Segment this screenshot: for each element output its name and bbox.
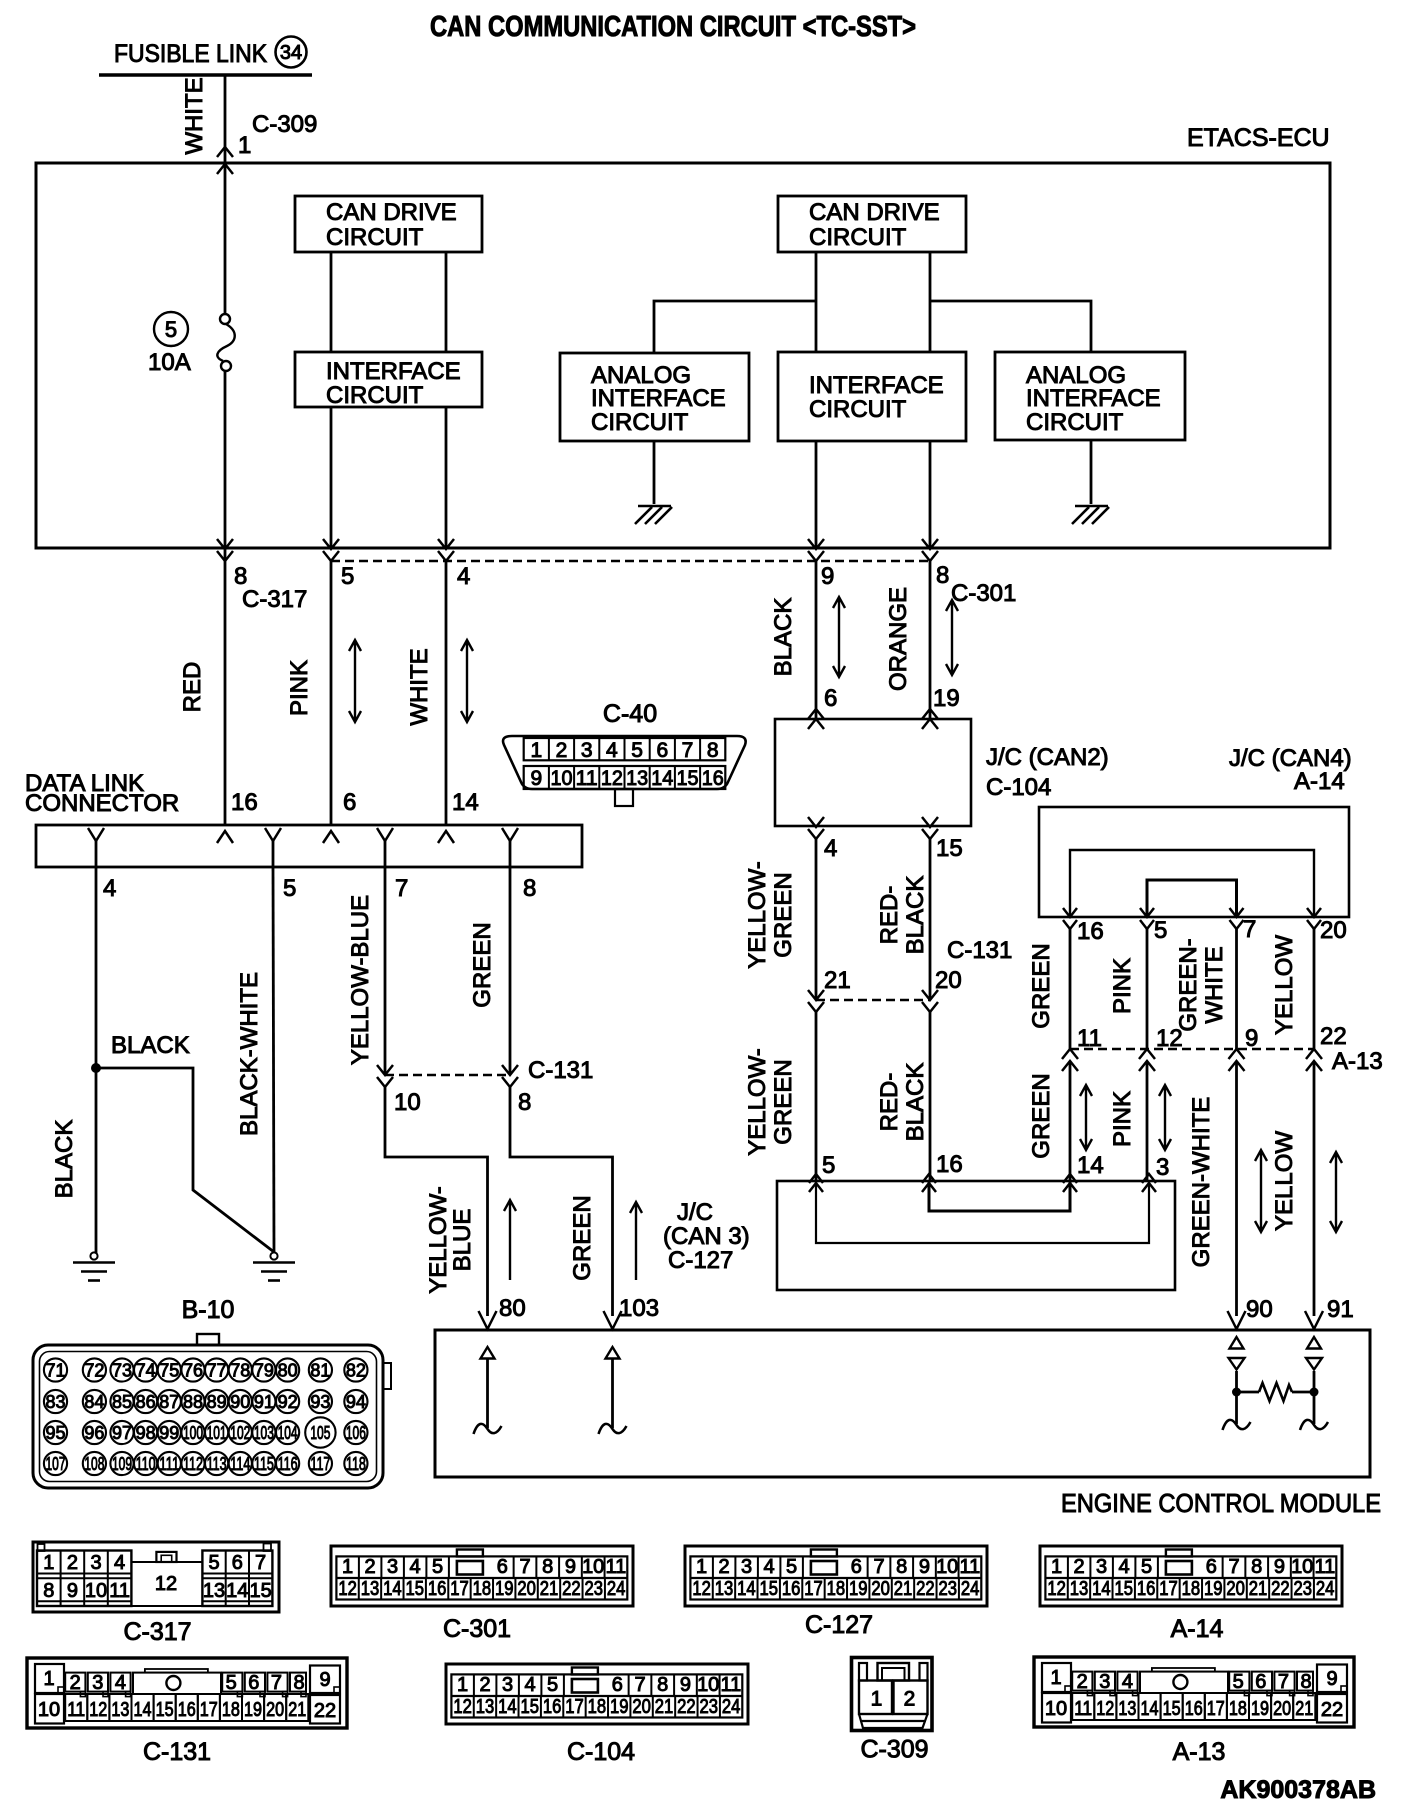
- wire PINK: [330, 561, 333, 825]
- svg-text:YELLOW-BLUE: YELLOW-BLUE: [347, 895, 374, 1065]
- svg-text:6: 6: [1255, 1671, 1266, 1693]
- svg-text:10: 10: [582, 1556, 604, 1578]
- svg-text:PINK: PINK: [1109, 1091, 1136, 1147]
- svg-text:20: 20: [935, 967, 962, 994]
- svg-text:GREEN: GREEN: [770, 872, 797, 957]
- wires CAN drive to interface (right): [815, 252, 818, 352]
- svg-text:97: 97: [112, 1423, 132, 1443]
- svg-text:9: 9: [67, 1580, 78, 1602]
- svg-text:5: 5: [165, 317, 177, 342]
- ECM internal terminal pin 91: [1307, 1337, 1321, 1349]
- signal arrow: [504, 1200, 516, 1280]
- svg-text:10: 10: [936, 1556, 958, 1578]
- svg-text:10: 10: [38, 1699, 60, 1721]
- svg-text:21: 21: [1295, 1698, 1313, 1720]
- svg-text:C-131: C-131: [947, 937, 1012, 964]
- svg-text:C-104: C-104: [986, 774, 1051, 801]
- wire YELLOW-BLUE to ECM pin80: [385, 1087, 488, 1316]
- svg-text:14: 14: [383, 1578, 402, 1600]
- svg-text:9: 9: [1245, 1025, 1258, 1052]
- tee wires to analog interface circuits: [654, 301, 816, 353]
- svg-text:106: 106: [346, 1423, 366, 1443]
- svg-text:12: 12: [1156, 1025, 1183, 1052]
- svg-text:112: 112: [183, 1454, 203, 1474]
- svg-text:C-127: C-127: [805, 1611, 873, 1639]
- svg-text:CONNECTOR: CONNECTOR: [25, 790, 179, 817]
- svg-text:11: 11: [109, 1580, 130, 1602]
- svg-text:1: 1: [871, 1688, 883, 1711]
- signal arrow: [461, 640, 473, 722]
- wire GREEN to ECM pin103: [510, 1087, 613, 1316]
- svg-text:12: 12: [89, 1699, 107, 1721]
- svg-text:15: 15: [677, 767, 699, 790]
- signal arrow: [349, 640, 361, 722]
- svg-text:103: 103: [254, 1423, 274, 1443]
- svg-text:11: 11: [67, 1699, 85, 1721]
- svg-text:21: 21: [540, 1578, 559, 1600]
- wire WHITE: [445, 561, 448, 825]
- svg-text:102: 102: [230, 1423, 250, 1443]
- svg-text:GREEN: GREEN: [770, 1059, 797, 1144]
- wire RED-BLACK C-104 pin15 down: [929, 839, 932, 1000]
- svg-text:17: 17: [1159, 1578, 1178, 1600]
- svg-text:13: 13: [1070, 1578, 1089, 1600]
- wire RED-BLACK to C-127 pin16: [929, 1012, 932, 1181]
- svg-text:17: 17: [565, 1696, 584, 1718]
- svg-text:21: 21: [288, 1699, 306, 1721]
- wire BLACK-WHITE DLC pin5 to ground: [273, 867, 274, 1252]
- svg-text:7: 7: [519, 1556, 530, 1578]
- svg-text:107: 107: [46, 1454, 66, 1474]
- svg-text:8: 8: [1300, 1671, 1311, 1693]
- svg-text:18: 18: [827, 1578, 846, 1600]
- svg-text:93: 93: [310, 1392, 330, 1412]
- wires interface to ETACS bottom (left): [330, 407, 333, 548]
- svg-text:6: 6: [232, 1552, 243, 1574]
- ECM entry arrows: [479, 1311, 497, 1329]
- svg-text:15: 15: [249, 1580, 271, 1602]
- svg-text:16: 16: [702, 767, 724, 790]
- svg-text:3: 3: [90, 1552, 101, 1574]
- svg-text:3: 3: [92, 1672, 103, 1694]
- svg-text:79: 79: [254, 1361, 274, 1381]
- resistor (terminating): [1237, 1391, 1260, 1394]
- connector pinout C-104: [446, 1664, 748, 1724]
- wire GREEN A-13 pin11 to C-127 pin14: [1069, 1061, 1072, 1181]
- svg-text:C-131: C-131: [528, 1057, 593, 1084]
- svg-text:20: 20: [1226, 1578, 1245, 1600]
- svg-text:21: 21: [1249, 1578, 1268, 1600]
- svg-text:4: 4: [1122, 1671, 1133, 1693]
- svg-text:3: 3: [1156, 1154, 1169, 1181]
- svg-text:ETACS-ECU: ETACS-ECU: [1187, 124, 1330, 152]
- wire YELLOW-BLUE DLC pin7: [384, 867, 387, 1075]
- svg-text:105: 105: [310, 1423, 330, 1443]
- svg-text:12: 12: [453, 1696, 472, 1718]
- connector C-131 (right dashed): [816, 999, 930, 1002]
- fusible link bus bar: [99, 73, 312, 77]
- svg-text:7: 7: [1228, 1556, 1239, 1578]
- wire YELLOW A-13 pin22 to ECM pin91: [1313, 1061, 1316, 1316]
- svg-text:110: 110: [136, 1454, 156, 1474]
- svg-text:YELLOW: YELLOW: [1271, 935, 1298, 1035]
- svg-text:15: 15: [936, 835, 963, 862]
- connector pinout C-301: [331, 1546, 633, 1606]
- svg-text:7: 7: [634, 1674, 645, 1696]
- ground (earth) 2: [270, 1252, 277, 1259]
- svg-text:11: 11: [576, 767, 598, 790]
- svg-text:14: 14: [226, 1580, 248, 1602]
- svg-text:WHITE: WHITE: [1201, 946, 1228, 1023]
- svg-text:21: 21: [824, 967, 851, 994]
- svg-text:10: 10: [85, 1580, 107, 1602]
- svg-text:4: 4: [824, 835, 837, 862]
- svg-text:4: 4: [1119, 1556, 1130, 1578]
- svg-text:19: 19: [933, 685, 960, 712]
- interface circuit box (middle): [778, 352, 966, 441]
- svg-text:20: 20: [1320, 917, 1347, 944]
- wire YELLOW-GREEN to C-127 pin5: [815, 1012, 818, 1181]
- svg-text:91: 91: [1327, 1296, 1354, 1323]
- svg-text:14: 14: [452, 789, 479, 816]
- svg-text:1: 1: [696, 1556, 707, 1578]
- svg-text:20: 20: [871, 1578, 890, 1600]
- CAN drive circuit box (right): [778, 196, 966, 252]
- svg-text:C-309: C-309: [252, 111, 317, 138]
- svg-text:16: 16: [936, 1151, 963, 1178]
- svg-text:11: 11: [721, 1674, 742, 1696]
- svg-text:INTERFACE: INTERFACE: [1026, 385, 1161, 412]
- ground (earth) 1: [90, 1252, 97, 1259]
- svg-text:A-14: A-14: [1171, 1615, 1224, 1643]
- svg-text:2: 2: [719, 1556, 730, 1578]
- svg-text:GREEN-: GREEN-: [1175, 938, 1202, 1031]
- junction connector J/C (CAN2) C-104 box: [775, 719, 971, 826]
- svg-text:11: 11: [1077, 1025, 1102, 1052]
- svg-text:78: 78: [230, 1361, 250, 1381]
- svg-text:12: 12: [601, 767, 623, 790]
- signal arrow: [1159, 1085, 1171, 1150]
- A-14 internal bus 16-20: [1070, 850, 1314, 917]
- svg-text:18: 18: [588, 1696, 607, 1718]
- chassis ground (left analog): [638, 505, 671, 508]
- svg-text:RED-: RED-: [876, 1073, 903, 1132]
- svg-text:ORANGE: ORANGE: [885, 587, 912, 691]
- svg-text:116: 116: [278, 1454, 298, 1474]
- svg-text:86: 86: [136, 1392, 156, 1412]
- connector C-40 outline: [503, 736, 746, 789]
- svg-text:92: 92: [278, 1392, 298, 1412]
- svg-text:13: 13: [476, 1696, 495, 1718]
- connector C-131 (left dashed): [385, 1074, 510, 1077]
- svg-text:24: 24: [1316, 1578, 1335, 1600]
- dashed connector line C-317/C-301: [331, 560, 930, 563]
- svg-text:6: 6: [248, 1672, 259, 1694]
- svg-text:2: 2: [556, 739, 568, 762]
- junction connector J/C (CAN 3) C-127 box: [777, 1181, 1175, 1290]
- svg-text:RED: RED: [179, 662, 206, 713]
- svg-text:8: 8: [1251, 1556, 1262, 1578]
- svg-text:7: 7: [873, 1556, 884, 1578]
- svg-text:GREEN: GREEN: [1028, 943, 1055, 1028]
- svg-text:8: 8: [523, 875, 536, 902]
- svg-text:C-127: C-127: [668, 1247, 733, 1274]
- connector B-10 body: [197, 1334, 219, 1345]
- svg-text:94: 94: [346, 1392, 366, 1412]
- svg-text:C-309: C-309: [860, 1736, 928, 1764]
- svg-text:2: 2: [480, 1674, 491, 1696]
- svg-text:CIRCUIT: CIRCUIT: [326, 382, 424, 409]
- signal arrow: [1255, 1150, 1267, 1232]
- svg-text:22: 22: [677, 1696, 696, 1718]
- svg-text:BLACK: BLACK: [902, 1063, 929, 1142]
- svg-text:8: 8: [896, 1556, 907, 1578]
- svg-text:BLACK: BLACK: [902, 876, 929, 955]
- svg-text:9: 9: [565, 1556, 576, 1578]
- wire YELLOW-GREEN C-104 pin4 down: [815, 839, 818, 1000]
- connector pinout A-14: [1040, 1546, 1342, 1606]
- svg-text:117: 117: [310, 1454, 330, 1474]
- svg-text:3: 3: [1099, 1671, 1110, 1693]
- svg-text:3: 3: [387, 1556, 398, 1578]
- svg-text:98: 98: [136, 1423, 156, 1443]
- svg-text:111: 111: [159, 1454, 179, 1474]
- svg-text:13: 13: [361, 1578, 380, 1600]
- svg-text:4: 4: [606, 739, 618, 762]
- svg-text:21: 21: [894, 1578, 913, 1600]
- svg-text:C-104: C-104: [567, 1738, 635, 1766]
- data link connector box: [36, 825, 582, 867]
- svg-text:1: 1: [1051, 1556, 1062, 1578]
- svg-text:GREEN: GREEN: [469, 922, 496, 1007]
- ECM internal terminal pin 80: [481, 1347, 495, 1359]
- svg-text:5: 5: [208, 1552, 219, 1574]
- svg-text:7: 7: [255, 1552, 266, 1574]
- svg-text:20: 20: [632, 1696, 651, 1718]
- svg-text:7: 7: [1243, 916, 1256, 943]
- svg-text:91: 91: [254, 1392, 274, 1412]
- A-14 internal bus 5-7: [1147, 880, 1237, 917]
- B-10 pins: [44, 1358, 67, 1381]
- svg-text:5: 5: [1141, 1556, 1152, 1578]
- svg-text:18: 18: [473, 1578, 492, 1600]
- svg-text:FUSIBLE LINK: FUSIBLE LINK: [114, 40, 267, 68]
- svg-text:13: 13: [1118, 1698, 1136, 1720]
- svg-text:15: 15: [759, 1578, 778, 1600]
- svg-text:5: 5: [283, 875, 296, 902]
- svg-text:82: 82: [346, 1361, 366, 1381]
- signal arrow: [1330, 1152, 1342, 1232]
- svg-text:18: 18: [1182, 1578, 1201, 1600]
- svg-text:YELLOW-: YELLOW-: [744, 1048, 771, 1156]
- svg-text:101: 101: [207, 1423, 227, 1443]
- signal arrow: [946, 600, 958, 675]
- svg-text:CIRCUIT: CIRCUIT: [809, 396, 907, 423]
- svg-text:7: 7: [1278, 1671, 1289, 1693]
- svg-text:19: 19: [610, 1696, 629, 1718]
- svg-text:13: 13: [626, 767, 648, 790]
- chassis ground (right analog): [1075, 505, 1108, 508]
- ECM internal terminal pin 103: [606, 1347, 620, 1359]
- wires to hooks: [1235, 1392, 1238, 1424]
- svg-text:A-14: A-14: [1294, 768, 1345, 795]
- svg-text:9: 9: [680, 1674, 691, 1696]
- svg-text:A-13: A-13: [1332, 1048, 1383, 1075]
- interface circuit box (left): [295, 352, 482, 407]
- svg-text:6: 6: [824, 685, 837, 712]
- svg-text:15: 15: [156, 1699, 174, 1721]
- svg-text:17: 17: [1207, 1698, 1225, 1720]
- wire ORANGE ETACS pin8 to C-104 pin19: [929, 561, 932, 719]
- svg-text:16: 16: [1077, 918, 1104, 945]
- svg-text:CAN DRIVE: CAN DRIVE: [809, 199, 940, 226]
- svg-text:14: 14: [1077, 1152, 1104, 1179]
- svg-text:7: 7: [395, 875, 408, 902]
- svg-text:20: 20: [1273, 1698, 1291, 1720]
- svg-text:11: 11: [960, 1556, 981, 1578]
- svg-text:8: 8: [293, 1672, 304, 1694]
- svg-text:2: 2: [365, 1556, 376, 1578]
- svg-text:PINK: PINK: [286, 660, 313, 716]
- fuse 5 10A (fusible link symbol): [154, 312, 188, 346]
- svg-text:3: 3: [581, 739, 593, 762]
- svg-text:16: 16: [782, 1578, 801, 1600]
- svg-text:6: 6: [343, 789, 356, 816]
- svg-text:16: 16: [428, 1578, 447, 1600]
- ETACS-ECU box: [36, 163, 1330, 548]
- svg-text:5: 5: [432, 1556, 443, 1578]
- svg-text:23: 23: [699, 1696, 718, 1718]
- svg-text:8: 8: [542, 1556, 553, 1578]
- C-127 internal bus 16-14: [929, 1181, 1070, 1211]
- svg-text:5: 5: [822, 1152, 835, 1179]
- wires interface to ETACS bottom (right): [815, 441, 818, 548]
- svg-text:21: 21: [655, 1696, 674, 1718]
- svg-text:8: 8: [657, 1674, 668, 1696]
- wires CAN drive to interface (left): [330, 252, 333, 352]
- svg-text:12: 12: [1047, 1578, 1066, 1600]
- svg-text:15: 15: [1163, 1698, 1181, 1720]
- connector A-13 (dashed): [1070, 1048, 1314, 1051]
- junction connector A-14 box: [1039, 807, 1349, 917]
- svg-text:11: 11: [1315, 1556, 1336, 1578]
- wire WHITE from fusible link to ETACS pin 1: [224, 75, 227, 314]
- svg-text:22: 22: [916, 1578, 935, 1600]
- svg-text:16: 16: [231, 789, 258, 816]
- svg-text:7: 7: [271, 1672, 282, 1694]
- svg-text:C-301: C-301: [443, 1615, 511, 1643]
- svg-text:80: 80: [278, 1361, 298, 1381]
- svg-text:CIRCUIT: CIRCUIT: [1026, 409, 1124, 436]
- svg-text:13: 13: [203, 1580, 225, 1602]
- svg-text:17: 17: [450, 1578, 469, 1600]
- svg-text:15: 15: [405, 1578, 424, 1600]
- svg-text:C-317: C-317: [242, 586, 307, 613]
- wire BLACK DLC pin4 to ground: [95, 867, 98, 1253]
- signal arrow: [1080, 1085, 1092, 1150]
- svg-text:6: 6: [497, 1556, 508, 1578]
- svg-text:3: 3: [1096, 1556, 1107, 1578]
- svg-text:GREEN: GREEN: [1028, 1073, 1055, 1158]
- svg-text:5: 5: [226, 1672, 237, 1694]
- svg-text:2: 2: [904, 1688, 916, 1711]
- svg-text:16: 16: [178, 1699, 196, 1721]
- svg-text:1: 1: [43, 1552, 54, 1574]
- svg-text:A-13: A-13: [1173, 1738, 1226, 1766]
- svg-text:14: 14: [651, 767, 673, 790]
- svg-text:12: 12: [1096, 1698, 1114, 1720]
- svg-text:22: 22: [1320, 1023, 1347, 1050]
- svg-text:85: 85: [112, 1392, 132, 1412]
- svg-text:77: 77: [207, 1361, 227, 1381]
- C-40 pin grid: [524, 738, 726, 760]
- svg-text:34: 34: [280, 42, 302, 64]
- svg-text:5: 5: [786, 1556, 797, 1578]
- connector pinout C-127: [685, 1546, 987, 1606]
- svg-text:114: 114: [230, 1454, 250, 1474]
- svg-text:C-131: C-131: [143, 1738, 211, 1766]
- svg-text:(CAN 3): (CAN 3): [663, 1223, 750, 1250]
- wire PINK A-13 pin12 to C-127 pin3: [1146, 1061, 1149, 1181]
- svg-text:14: 14: [737, 1578, 756, 1600]
- svg-text:17: 17: [200, 1699, 218, 1721]
- svg-text:WHITE: WHITE: [406, 648, 433, 725]
- svg-text:4: 4: [103, 875, 116, 902]
- svg-text:14: 14: [1092, 1578, 1111, 1600]
- svg-text:BLACK: BLACK: [111, 1032, 190, 1059]
- svg-text:18: 18: [1229, 1698, 1247, 1720]
- svg-text:2: 2: [1077, 1671, 1088, 1693]
- svg-text:19: 19: [1251, 1698, 1269, 1720]
- wire PINK A-14 pin5: [1146, 929, 1149, 1049]
- svg-text:8: 8: [518, 1089, 531, 1116]
- svg-text:10: 10: [697, 1674, 719, 1696]
- svg-text:72: 72: [84, 1361, 104, 1381]
- svg-text:14: 14: [1141, 1698, 1159, 1720]
- svg-text:J/C: J/C: [677, 1199, 713, 1226]
- analog interface circuit box (right): [995, 352, 1185, 440]
- svg-text:10: 10: [1045, 1698, 1067, 1720]
- svg-text:22: 22: [562, 1578, 581, 1600]
- svg-text:C-40: C-40: [603, 700, 657, 728]
- svg-text:3: 3: [741, 1556, 752, 1578]
- svg-text:GREEN-WHITE: GREEN-WHITE: [1188, 1097, 1215, 1268]
- svg-text:108: 108: [84, 1454, 104, 1474]
- svg-text:88: 88: [183, 1392, 203, 1412]
- svg-text:99: 99: [159, 1423, 179, 1443]
- svg-text:118: 118: [346, 1454, 366, 1474]
- svg-text:2: 2: [1074, 1556, 1085, 1578]
- svg-text:80: 80: [499, 1295, 526, 1322]
- svg-text:RED-: RED-: [876, 886, 903, 945]
- svg-text:76: 76: [183, 1361, 203, 1381]
- wire below fuse: [224, 371, 227, 548]
- svg-text:3: 3: [502, 1674, 513, 1696]
- ECM internal terminal pin 90: [1230, 1337, 1244, 1349]
- svg-text:113: 113: [207, 1454, 227, 1474]
- svg-text:23: 23: [938, 1578, 957, 1600]
- svg-text:9: 9: [319, 1669, 330, 1691]
- wire BLACK branch to ground 2: [96, 1068, 274, 1252]
- svg-text:24: 24: [722, 1696, 741, 1718]
- svg-text:2: 2: [67, 1552, 78, 1574]
- svg-text:YELLOW-: YELLOW-: [425, 1186, 452, 1294]
- svg-text:1: 1: [342, 1556, 353, 1578]
- svg-text:BLACK: BLACK: [51, 1120, 78, 1199]
- engine control module box: [435, 1330, 1370, 1477]
- svg-text:13: 13: [111, 1699, 129, 1721]
- svg-text:103: 103: [619, 1295, 659, 1322]
